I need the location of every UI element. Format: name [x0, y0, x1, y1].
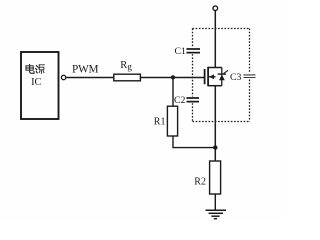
wire: junction to R2	[214, 148, 216, 161]
wire: source down to junction	[214, 86, 216, 148]
body diode D1: anode triangle	[219, 75, 225, 81]
wire: junction down to R1	[172, 77, 174, 106]
transistor Q1 MOSFET: channel bar	[207, 67, 209, 87]
body diode D1: diagonal tick	[224, 70, 228, 73]
node: junction dot on main line	[213, 145, 217, 149]
node: junction dot at gate wire / R1 branch	[171, 75, 175, 79]
dashed parasitic box (left edge, broken at C1, C2)	[192, 29, 194, 122]
transistor Q1 MOSFET: body line	[208, 76, 216, 78]
ground symbol	[206, 210, 227, 219]
terminal circle (drain output, top)	[213, 6, 218, 11]
IC box U1 (power IC)	[21, 52, 59, 119]
svg-text:IC: IC	[31, 77, 41, 88]
svg-text:PWM: PWM	[72, 63, 99, 75]
transistor Q1 MOSFET: body arrow	[209, 74, 214, 79]
pin terminal circle on IC	[61, 75, 65, 79]
capacitor C1 plates	[187, 49, 201, 53]
svg-text:Rg: Rg	[120, 60, 132, 72]
dashed parasitic box (bottom edge)	[193, 121, 250, 123]
svg-text:R2: R2	[194, 176, 206, 187]
wire: Rg to gate	[140, 77, 204, 79]
resistor R2	[210, 161, 221, 194]
wire: top terminal to drain	[214, 11, 216, 68]
wire: R1 bottom to lower junction	[173, 136, 215, 148]
transistor Q1 MOSFET: gate bar	[204, 69, 206, 84]
label 电源 (hand-drawn CJK strokes)	[26, 65, 44, 74]
svg-text:C1: C1	[175, 46, 187, 57]
transistor Q1 MOSFET: drain stub	[208, 67, 222, 69]
svg-text:R1: R1	[154, 117, 166, 128]
body diode D1: vertical branch	[221, 68, 223, 86]
svg-text:C3: C3	[230, 72, 242, 83]
body diode D1: cathode bar	[218, 73, 226, 75]
transistor Q1 MOSFET: source stub	[208, 85, 222, 87]
svg-text:C2: C2	[174, 95, 186, 106]
resistor Rg	[114, 74, 141, 81]
dashed parasitic box (top edge)	[193, 28, 250, 30]
capacitor C2 plates	[187, 98, 200, 102]
dashed parasitic box (right edge, broken at C3)	[249, 29, 251, 122]
wire: pin to Rg	[66, 77, 114, 79]
wire: R2 to ground	[214, 194, 216, 210]
resistor R1	[167, 106, 177, 136]
capacitor C3 plates	[244, 75, 256, 78]
